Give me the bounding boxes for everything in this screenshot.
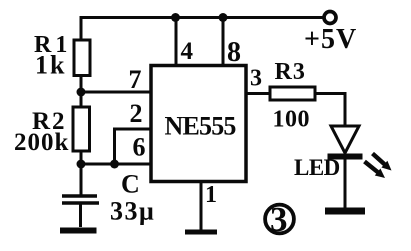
svg-text:1k: 1k — [35, 51, 66, 80]
svg-text:33μ: 33μ — [110, 197, 155, 226]
svg-text:+5V: +5V — [304, 24, 357, 55]
svg-text:LED: LED — [294, 155, 340, 180]
svg-text:7: 7 — [129, 65, 142, 94]
svg-text:3: 3 — [250, 66, 262, 92]
svg-text:4: 4 — [181, 38, 194, 65]
svg-text:NE555: NE555 — [165, 112, 237, 141]
svg-text:1: 1 — [205, 182, 217, 208]
svg-text:C: C — [121, 170, 140, 199]
svg-text:2: 2 — [130, 99, 143, 128]
svg-text:3: 3 — [270, 200, 288, 239]
svg-text:6: 6 — [133, 133, 146, 162]
svg-text:100: 100 — [273, 107, 311, 133]
svg-text:R3: R3 — [275, 59, 306, 85]
svg-text:8: 8 — [227, 37, 241, 68]
svg-text:200k: 200k — [14, 129, 69, 156]
